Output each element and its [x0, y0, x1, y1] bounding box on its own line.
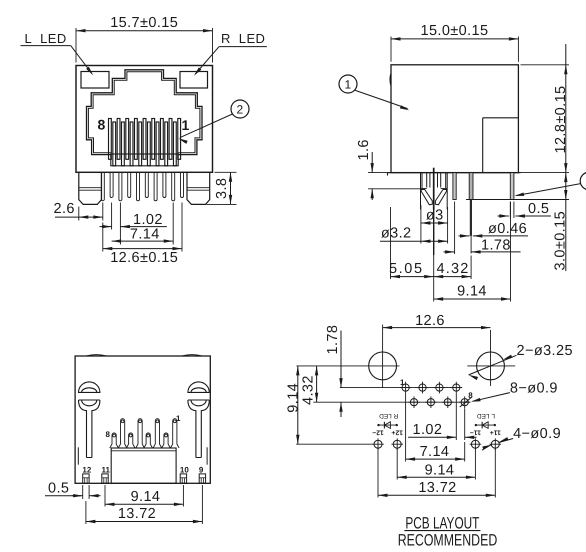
- dim 9.14 pcb bottom: [397, 476, 475, 478]
- dim 4.32 pcb: [316, 366, 318, 402]
- bottom view side steps: [77, 447, 79, 464]
- side view bottom flange: [388, 172, 521, 174]
- svg-text:1.6: 1.6: [356, 139, 372, 160]
- svg-text:1: 1: [344, 78, 351, 92]
- snap post left prong: [421, 190, 432, 205]
- contact comb: [109, 119, 112, 160]
- pcb big hole left: [369, 352, 397, 380]
- svg-text:RECOMMENDED: RECOMMENDED: [398, 532, 498, 550]
- dim phi0.46: [459, 235, 470, 237]
- svg-text:15.0±0.15: 15.0±0.15: [420, 23, 488, 39]
- dim 12.6 extension lines: [102, 223, 104, 252]
- dim 7.14: [112, 240, 174, 242]
- R LED leader: [219, 46, 267, 48]
- dim phi3.2: [380, 240, 421, 242]
- svg-text:12+: 12+: [391, 428, 403, 435]
- svg-text:11+: 11+: [490, 428, 501, 435]
- svg-text:11−: 11−: [470, 428, 481, 435]
- dim 12.6 pcb: [383, 327, 491, 329]
- pcb holes row 2: [410, 399, 417, 406]
- balloon 3 partial: [580, 172, 586, 190]
- svg-text:1: 1: [182, 117, 190, 133]
- svg-text:1.78: 1.78: [481, 237, 511, 253]
- snap post center line: [433, 168, 435, 210]
- svg-text:3.0±0.15: 3.0±0.15: [553, 211, 569, 271]
- svg-text:0.5: 0.5: [528, 201, 549, 217]
- RJ45 cavity outline outer: [87, 70, 203, 155]
- right mounting leg: [187, 172, 210, 204]
- svg-text:1.02: 1.02: [413, 422, 443, 438]
- dim 12.8 extension lines: [521, 64, 570, 66]
- svg-text:1: 1: [176, 414, 181, 423]
- L LED pads: [471, 440, 479, 448]
- snap post bottom view: [79, 382, 100, 392]
- leader 4-phi0.9: [499, 439, 513, 443]
- svg-text:2−ø3.25: 2−ø3.25: [517, 343, 573, 359]
- dim 1.78 side: [444, 251, 455, 253]
- snap post outer walls: [420, 173, 422, 210]
- svg-text:8: 8: [98, 116, 106, 132]
- dim 1.6: [371, 152, 373, 173]
- dim phi0.46 ext: [470, 236, 472, 254]
- svg-text:8: 8: [106, 430, 111, 439]
- svg-text:13.72: 13.72: [118, 506, 156, 522]
- side view inner step: [483, 117, 519, 119]
- svg-text:10: 10: [180, 466, 189, 475]
- pin tip level line: [466, 199, 569, 201]
- dim 7.14 pcb ext: [405, 394, 407, 462]
- dim 0.5 bottom: [45, 495, 81, 497]
- dim 13.72: [86, 521, 202, 523]
- dim 1.02 pcb ext: [455, 394, 457, 441]
- dim 9.14 side: [434, 298, 511, 300]
- pcb holes row 1: [402, 384, 409, 391]
- svg-text:4.32: 4.32: [437, 261, 470, 277]
- svg-text:9.14: 9.14: [457, 284, 487, 300]
- L LED leader: [21, 45, 71, 47]
- snap post inner walls: [426, 173, 428, 188]
- dim 9.14 side ext: [510, 202, 512, 302]
- svg-text:0.5: 0.5: [48, 481, 69, 497]
- dim 7.14 extension line: [172, 203, 174, 245]
- snap post ledges: [421, 188, 427, 190]
- ext to R pad: [296, 443, 372, 445]
- dim 5.05 4.32 ext: [390, 207, 392, 279]
- svg-text:9: 9: [199, 466, 204, 475]
- dim 15.7 extension lines: [75, 28, 77, 63]
- dim 9.14 pcb bottom ext: [396, 449, 398, 480]
- dim 1.02: [100, 226, 112, 228]
- svg-text:8−ø0.9: 8−ø0.9: [510, 380, 558, 396]
- svg-text:4.32: 4.32: [301, 375, 317, 405]
- dim 0.5 side ext: [509, 202, 511, 219]
- svg-text:12.6: 12.6: [415, 313, 445, 329]
- R LED window: [180, 72, 208, 89]
- balloon 1 leader: [355, 90, 408, 109]
- svg-text:8: 8: [468, 391, 473, 400]
- R LED pads: [374, 440, 382, 448]
- snap post bottom view: [188, 382, 209, 393]
- svg-text:ø0.46: ø0.46: [488, 221, 527, 237]
- svg-text:3.8: 3.8: [214, 178, 230, 199]
- svg-text:12−: 12−: [372, 428, 384, 435]
- bottom view top bumps: [86, 355, 106, 356]
- dim 9.14 bottom ext: [104, 485, 106, 507]
- dim 12.8 and 3.0 line: [565, 44, 567, 271]
- balloon 2 leader: [180, 114, 232, 138]
- pcb big hole right: [477, 352, 505, 380]
- pin 11 stub: [102, 474, 108, 483]
- dim 9.14 bottom: [105, 503, 183, 505]
- dim 2.6: [79, 216, 103, 218]
- dim 0.5 side: [498, 215, 509, 217]
- pin 10 stub: [180, 474, 186, 483]
- svg-text:1.78: 1.78: [325, 325, 341, 355]
- svg-text:L LED: L LED: [477, 412, 495, 419]
- leader 2-phi3.25: [469, 355, 517, 375]
- slash through hole 8: [460, 397, 472, 407]
- dim 15.0 extension lines: [390, 37, 392, 62]
- dim 1.78 pcb: [340, 331, 342, 388]
- svg-text:12.8±0.15: 12.8±0.15: [553, 85, 569, 153]
- dim 13.72 pcb: [378, 494, 495, 496]
- svg-text:R LED: R LED: [221, 31, 265, 46]
- pcb hole rows lines: [340, 387, 462, 389]
- dim phi3.2 ext: [420, 205, 422, 244]
- svg-text:7.14: 7.14: [130, 226, 160, 242]
- svg-text:9.14: 9.14: [131, 489, 161, 505]
- side view pin B thin tail: [470, 200, 472, 236]
- dim 3.8: [230, 172, 232, 204]
- svg-text:ø3.2: ø3.2: [381, 225, 412, 241]
- RJ45 cavity outline inner: [88, 72, 199, 153]
- svg-text:L LED: L LED: [25, 31, 67, 46]
- svg-text:13.72: 13.72: [418, 480, 456, 496]
- dim 1.02 extension lines: [111, 203, 113, 230]
- svg-text:9.14: 9.14: [425, 462, 455, 478]
- bottom view body: [75, 356, 210, 483]
- bottom comb block: [111, 448, 176, 483]
- contact block: [111, 154, 178, 166]
- dim 1.02 pcb: [408, 436, 456, 438]
- pin 9 stub: [199, 474, 205, 483]
- side view pin A: [453, 173, 456, 200]
- front view outer body: [76, 66, 213, 173]
- pin 12 stub: [83, 474, 89, 483]
- svg-text:12: 12: [82, 466, 91, 475]
- svg-text:PCB LAYOUT: PCB LAYOUT: [405, 515, 479, 533]
- dim 1.78 side ext: [454, 202, 456, 255]
- dim 3.0: [564, 173, 567, 183]
- leader 8-phi0.9: [473, 393, 510, 402]
- svg-text:ø3: ø3: [426, 208, 444, 224]
- svg-text:1: 1: [400, 378, 405, 387]
- svg-text:11: 11: [102, 466, 111, 475]
- side view pin B: [469, 173, 473, 200]
- svg-text:5.05: 5.05: [389, 261, 424, 277]
- L LED window: [81, 72, 109, 89]
- front view pins: [101, 172, 104, 201]
- left mounting leg: [79, 172, 102, 204]
- side view pin C: [510, 173, 514, 200]
- balloon 2: [231, 100, 249, 118]
- dim 0.5 bottom ext: [82, 485, 84, 499]
- dim 5.05 and 4.32: [391, 276, 434, 278]
- dim 3.8 extension lines: [215, 171, 237, 173]
- dim 2.6 extension lines: [78, 207, 80, 221]
- dim 12.8 bottom extension: [521, 172, 570, 174]
- dim 15.0: [391, 38, 518, 40]
- balloon 3 leader: [516, 184, 580, 196]
- svg-text:4−ø0.9: 4−ø0.9: [513, 426, 561, 442]
- balloon 1: [339, 75, 357, 93]
- svg-text:15.7±0.15: 15.7±0.15: [110, 15, 178, 31]
- svg-text:2.6: 2.6: [54, 201, 75, 217]
- snap post right prong: [435, 190, 446, 205]
- svg-text:12.6±0.15: 12.6±0.15: [110, 250, 178, 266]
- dim 15.7: [76, 30, 213, 32]
- dim 7.14 pcb: [406, 458, 465, 460]
- dim 12.6: [103, 248, 182, 250]
- dim 13.72 pcb ext: [377, 449, 379, 498]
- side view body: [391, 65, 518, 173]
- svg-text:9.14: 9.14: [286, 383, 302, 413]
- dim 1.6 extension line: [368, 188, 421, 190]
- dim 13.72 ext: [85, 501, 87, 524]
- dim 9.14 pcb left: [297, 366, 299, 444]
- svg-text:R LED: R LED: [379, 412, 398, 419]
- svg-text:2: 2: [236, 103, 243, 117]
- side body left edge mark: [390, 73, 391, 86]
- svg-text:7.14: 7.14: [420, 444, 450, 460]
- bottom view contact fingers: [110, 435, 112, 448]
